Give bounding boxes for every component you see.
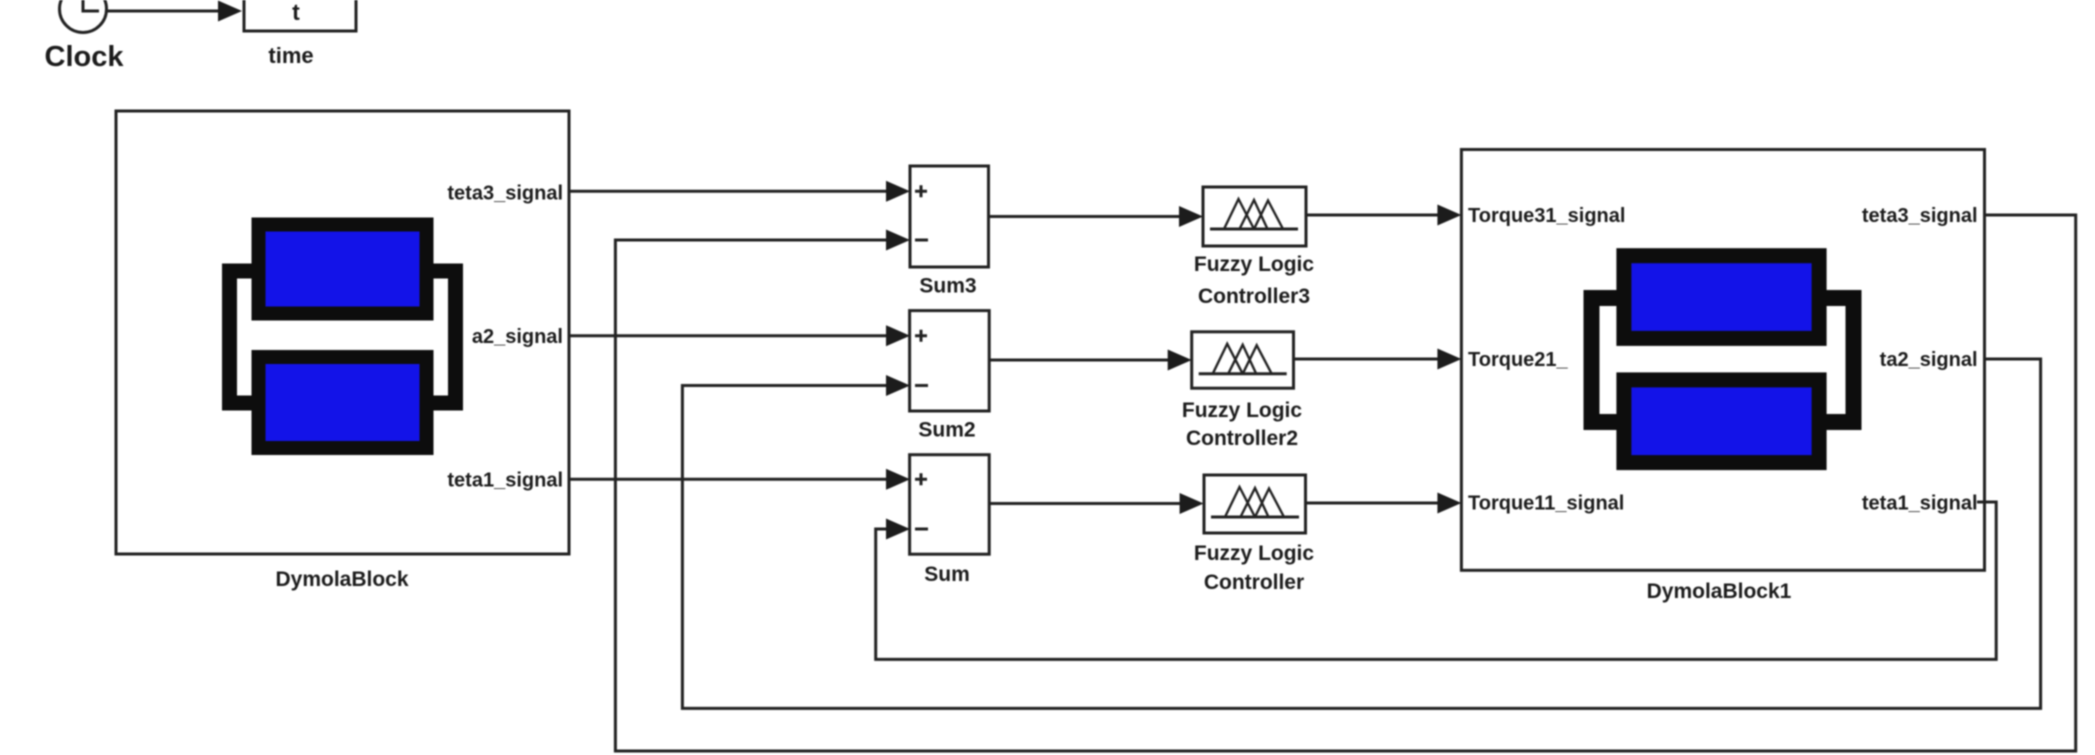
- svg-text:a2_signal: a2_signal: [472, 326, 563, 348]
- svg-text:Controller3: Controller3: [1198, 285, 1310, 308]
- svg-text:teta3_signal: teta3_signal: [447, 183, 563, 205]
- svg-text:Fuzzy Logic: Fuzzy Logic: [1182, 399, 1302, 422]
- svg-text:Torque11_signal: Torque11_signal: [1468, 493, 1624, 515]
- svg-text:Fuzzy Logic: Fuzzy Logic: [1194, 253, 1314, 276]
- svg-text:ta2_signal: ta2_signal: [1880, 349, 1978, 371]
- svg-text:Sum: Sum: [924, 563, 970, 586]
- svg-text:DymolaBlock1: DymolaBlock1: [1647, 580, 1792, 603]
- svg-text:Sum2: Sum2: [918, 419, 975, 442]
- svg-text:DymolaBlock: DymolaBlock: [275, 568, 408, 591]
- svg-text:Torque31_signal: Torque31_signal: [1468, 205, 1625, 227]
- svg-text:Fuzzy Logic: Fuzzy Logic: [1194, 542, 1314, 565]
- svg-text:time: time: [268, 43, 313, 68]
- svg-text:t: t: [292, 0, 300, 25]
- svg-text:Sum3: Sum3: [919, 275, 976, 298]
- svg-text:Clock: Clock: [45, 41, 125, 73]
- svg-text:teta3_signal: teta3_signal: [1862, 205, 1978, 227]
- svg-text:Torque21_: Torque21_: [1468, 349, 1569, 371]
- svg-text:teta1_signal: teta1_signal: [447, 470, 563, 492]
- svg-text:Controller2: Controller2: [1186, 427, 1298, 450]
- svg-text:teta1_signal: teta1_signal: [1862, 493, 1978, 515]
- svg-text:Controller: Controller: [1204, 571, 1304, 594]
